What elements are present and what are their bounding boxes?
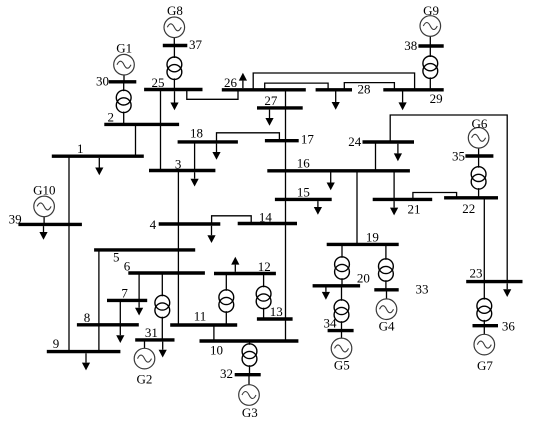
wire line 23-24 [390,115,507,282]
generator G3 [239,375,260,420]
svg-text:39: 39 [9,211,22,226]
transformer T19-20 [335,244,350,285]
svg-text:19: 19 [366,229,379,244]
svg-text:34: 34 [324,316,338,331]
svg-text:1: 1 [77,141,84,156]
bus 37 [163,37,203,52]
svg-text:4: 4 [150,217,157,232]
bus 4 [150,217,221,232]
svg-text:10: 10 [210,342,223,357]
svg-text:17: 17 [301,132,315,147]
svg-text:28: 28 [358,82,371,97]
svg-text:22: 22 [462,201,475,216]
bus 23 [466,266,522,282]
svg-text:5: 5 [113,250,120,265]
wire line 6-7 [138,273,140,300]
load at bus 31 [159,342,167,358]
svg-text:32: 32 [220,366,233,381]
bus 36 [473,319,516,334]
bus 6 [124,258,205,273]
load at bus 24 [394,144,402,162]
svg-text:38: 38 [404,38,417,53]
wire line 5-8-9 chain [98,250,100,352]
bus 9 [47,336,121,352]
svg-text:G10: G10 [33,182,55,197]
wire line 16-24 [375,142,377,171]
load at bus 28 [332,92,340,110]
wire line 10-11 [213,325,215,341]
svg-text:3: 3 [175,156,182,171]
bus 16 [267,156,410,171]
bus 22 [444,198,498,216]
bus 5 [94,250,195,265]
svg-text:G6: G6 [471,116,487,131]
load at bus 20 [322,288,330,300]
wire line 3-4-5-6-11 chain [177,171,179,326]
generator G9 [420,3,441,46]
svg-text:26: 26 [224,75,238,90]
bus 32 [220,366,261,381]
bus 26 [222,75,306,90]
transformer T23-36 [477,282,492,326]
svg-text:20: 20 [357,270,370,285]
load at bus 27 [265,110,273,126]
svg-text:G2: G2 [136,372,152,387]
generator G6 [468,116,489,156]
bus 10 [200,341,299,357]
wire line 25-2-3 chain [160,90,162,171]
svg-text:G3: G3 [242,405,258,420]
transformer T37-25 [167,46,182,90]
bus 30 [96,74,136,89]
bus 27 [257,93,303,108]
transformer T12-11 [219,274,234,326]
wire line 1-2 [135,124,137,156]
svg-text:12: 12 [258,259,271,274]
bus 3 [149,156,215,171]
load at bus 8 [116,327,124,344]
generator G2 [134,340,155,387]
bus 29 [383,90,443,106]
svg-text:37: 37 [189,37,203,52]
svg-text:G7: G7 [477,358,493,373]
bus 34 [324,316,354,331]
bus 2 [104,110,179,125]
transformer T35-22 [471,156,486,198]
generator G5 [331,331,352,373]
wire line 17-18 [217,133,280,142]
svg-text:23: 23 [470,266,483,281]
load at bus 21 [390,201,398,215]
load at bus 18 [212,144,220,160]
svg-text:25: 25 [152,75,165,90]
wire line 26-29 [253,73,414,90]
svg-text:7: 7 [121,286,128,301]
bus 39 [9,211,82,226]
generator G7 [474,326,495,373]
svg-text:G8: G8 [167,3,183,18]
bus 31 [135,325,174,340]
generator G8 [164,3,185,45]
svg-text:30: 30 [96,74,109,89]
load at bus 12 [231,257,239,272]
svg-text:13: 13 [270,304,283,319]
svg-text:36: 36 [502,319,516,334]
bus 1 [52,141,144,156]
svg-text:18: 18 [190,126,203,141]
load at bus 25 [170,91,178,110]
svg-text:9: 9 [53,336,60,351]
load at bus 39 [39,226,47,240]
transformer T30-2 [116,82,131,125]
svg-text:14: 14 [259,209,273,224]
wire line 21-22 [413,193,457,200]
bus 15 [275,185,332,200]
wire line 4-14 [212,216,252,224]
wire line 22-23 [483,198,485,282]
wire line 26-27-17-16-15-14-13-10 chain [285,90,287,341]
bus 19 [327,229,399,244]
svg-text:2: 2 [108,110,115,125]
bus 11 [170,309,237,325]
bus 25 [144,75,202,90]
generator G1 [114,41,135,82]
svg-text:29: 29 [430,91,443,106]
bus 13 [257,304,293,319]
transformer T6-31 [155,273,170,340]
bus 20 [313,270,370,286]
wire line 26-28 [265,83,328,90]
svg-text:G5: G5 [334,358,350,373]
transformer T19-33 [379,244,394,289]
transformer T38-29 [423,46,438,90]
bus 17 [265,132,315,147]
wire line 16-19 [356,171,358,245]
svg-text:21: 21 [408,202,421,217]
bus 35 [452,149,493,164]
load at bus 4 [207,226,215,243]
svg-text:6: 6 [124,258,131,273]
bus 24 [348,134,414,149]
wire line 28-29 [344,83,394,90]
svg-text:G9: G9 [423,3,439,18]
load at bus 9 [82,353,90,370]
bus 8 [77,310,139,325]
bus 28 [316,82,371,97]
load at bus 15 [314,201,322,215]
bus 7 [107,286,147,301]
bus 14 [238,209,297,224]
load at bus 29 [399,92,407,111]
svg-text:11: 11 [194,309,207,324]
wire line 3-18 [194,142,196,171]
wire line 1-39-9 chain [68,156,70,351]
svg-text:33: 33 [416,282,429,297]
transformer T20-34 [334,286,349,331]
svg-text:G1: G1 [116,41,132,56]
wire line 7-8 [119,300,121,324]
bus 18 [178,126,238,142]
load at bus 1 [95,158,103,175]
wire line 25-26 [187,90,238,100]
load at bus 26 [239,73,247,88]
transformer T10-32 [242,341,257,375]
svg-text:15: 15 [297,185,310,200]
svg-text:G4: G4 [379,319,395,334]
load at bus 3 [191,172,199,186]
bus 33 [374,282,428,297]
load at bus 7 [135,302,143,315]
svg-text:27: 27 [264,93,278,108]
transformer T12-13 [256,274,271,320]
svg-text:35: 35 [452,149,465,164]
bus 21 [373,199,433,216]
svg-text:31: 31 [145,325,158,340]
svg-text:16: 16 [297,156,311,171]
load at bus 16 [327,173,335,191]
bus 38 [404,38,444,53]
bus 12 [214,259,276,274]
generator G10 [33,182,55,224]
wire line 16-21 [393,171,395,200]
svg-text:8: 8 [84,310,91,325]
generator G4 [376,290,397,334]
load at bus 23 [503,283,511,297]
svg-text:24: 24 [348,134,362,149]
